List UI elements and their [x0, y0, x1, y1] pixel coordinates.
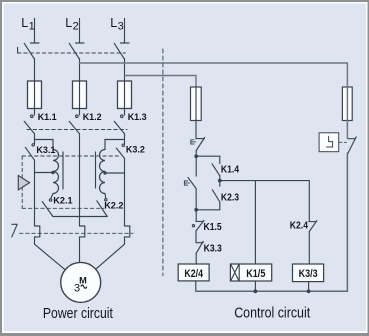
wire tee to left autotransformer	[35, 140, 54, 150]
pushbutton S2 start	[184, 156, 196, 210]
wire K2.4 branch	[308, 181, 310, 222]
svg-text:K3/3: K3/3	[299, 268, 318, 280]
pressure switch B1 link dashed	[339, 141, 347, 143]
contactor K2 linkage dashed	[22, 207, 104, 209]
contact K1.3	[114, 115, 124, 144]
switch Q1 linkage dashed	[18, 52, 126, 54]
node bus dot 1	[254, 289, 258, 293]
node bus dot 2	[307, 289, 311, 293]
pressure switch B1 contact	[348, 137, 357, 153]
contact K1.1	[24, 115, 34, 140]
wire L2 to fuse	[79, 58, 81, 81]
svg-text:K1.3: K1.3	[128, 111, 147, 122]
wire tee to right autotransformer	[105, 140, 125, 150]
wire K3.1 branch	[34, 140, 36, 144]
wire K1/5 branch	[254, 181, 256, 264]
wire T2 bottom to K2.2	[104, 194, 107, 199]
fuse F2	[73, 81, 87, 115]
overload F4 element 2	[80, 226, 85, 263]
svg-text:K2.4: K2.4	[290, 221, 308, 232]
wire K1/5 to bus	[254, 281, 256, 291]
svg-text:K3.2: K3.2	[126, 144, 145, 155]
node L2 terminal tick	[76, 42, 85, 44]
wire bottom bus	[196, 153, 348, 291]
node L3 terminal tick	[121, 42, 130, 44]
contactor K3 linkage dashed	[22, 155, 120, 157]
separator dashed	[162, 49, 164, 276]
wire T1 bottom to K2.1	[51, 194, 53, 199]
contact K2.2	[97, 199, 107, 217]
wire T1 tap	[35, 172, 54, 174]
contact K1.5	[192, 210, 204, 231]
wire to junction	[195, 151, 197, 157]
svg-text:K3.3: K3.3	[204, 244, 222, 255]
fuse F5 control left	[191, 87, 202, 138]
node junction B	[218, 179, 222, 183]
svg-text:3: 3	[74, 282, 80, 294]
overload F4 trip actuator	[12, 224, 17, 237]
pressure switch B1 box	[319, 133, 339, 152]
node T2 tap dot	[103, 171, 106, 174]
node junction A	[194, 154, 198, 158]
fuse F3	[118, 81, 132, 115]
wire K3/3 to bus	[308, 282, 310, 292]
mechanism link dashed vertical	[21, 156, 23, 208]
svg-text:Power circuit: Power circuit	[43, 306, 113, 322]
pushbutton S1 stop	[191, 138, 205, 151]
svg-text:K2.2: K2.2	[104, 199, 123, 210]
contact K3.3	[196, 231, 203, 264]
contact K2.4	[309, 221, 317, 264]
contact K3.1	[25, 144, 34, 226]
svg-text:K3.1: K3.1	[36, 144, 55, 155]
contact K2.3	[196, 181, 220, 210]
wire control supply rail 2	[125, 76, 197, 88]
wire L3 to fuse	[124, 58, 126, 81]
svg-text:K2/4: K2/4	[184, 268, 203, 280]
fuse F1	[28, 81, 42, 115]
contact K1.2	[69, 115, 79, 226]
actuator triangle	[18, 176, 29, 190]
fuse F6 control right	[342, 87, 352, 138]
switch Q1 handle tick	[17, 47, 19, 53]
transformer T2 core	[95, 152, 97, 188]
contact K1.4	[212, 164, 220, 181]
motor M1	[61, 262, 101, 302]
overload F4 trip linkage dashed	[20, 232, 134, 234]
node L1 terminal tick	[31, 42, 40, 44]
wire motor lead left	[35, 244, 66, 270]
wire K2 bridge	[53, 216, 107, 218]
svg-text:K1/5: K1/5	[246, 268, 265, 280]
overload F4 element 1	[35, 226, 40, 244]
wire L3 top stub	[124, 19, 126, 43]
svg-text:M: M	[79, 275, 87, 285]
transformer T1 winding	[53, 150, 59, 194]
svg-text:K1.5: K1.5	[204, 222, 222, 233]
coil K3/3	[293, 264, 324, 282]
wire branch to K1.4	[196, 156, 220, 163]
wire to K2.4 branch	[220, 180, 309, 182]
svg-text:Control circuit: Control circuit	[234, 306, 310, 322]
wire L1 to fuse	[34, 58, 36, 81]
switch Q1 pole 2 blade	[69, 43, 79, 58]
svg-text:K1.1: K1.1	[38, 111, 57, 122]
svg-text:K1.2: K1.2	[83, 111, 102, 122]
wire T2 tap	[105, 172, 125, 174]
wire L2 top stub	[79, 19, 81, 43]
switch Q1 pole 3 blade	[114, 43, 124, 58]
svg-text:K2.1: K2.1	[53, 195, 72, 206]
svg-text:K2.3: K2.3	[221, 193, 239, 204]
contact K3.2	[116, 144, 124, 226]
coil K2/4	[178, 264, 209, 281]
transformer T1 core	[62, 152, 64, 189]
wire K2/4 to bus	[195, 281, 197, 291]
switch Q1 pole 1 blade	[24, 43, 34, 58]
wire control supply rail 1	[80, 63, 348, 87]
overload F4 element 3	[125, 226, 130, 244]
node junction C	[194, 208, 198, 212]
wire motor lead right	[96, 244, 125, 269]
wire L1 top stub	[34, 19, 36, 43]
node T1 tap dot	[51, 171, 54, 174]
contact K2.1	[42, 199, 53, 217]
coil K1/5 with delay element	[230, 264, 271, 281]
transformer T2 winding	[100, 150, 105, 194]
svg-text:K1.4: K1.4	[221, 165, 239, 176]
contactor K1 linkage dashed	[27, 129, 127, 131]
